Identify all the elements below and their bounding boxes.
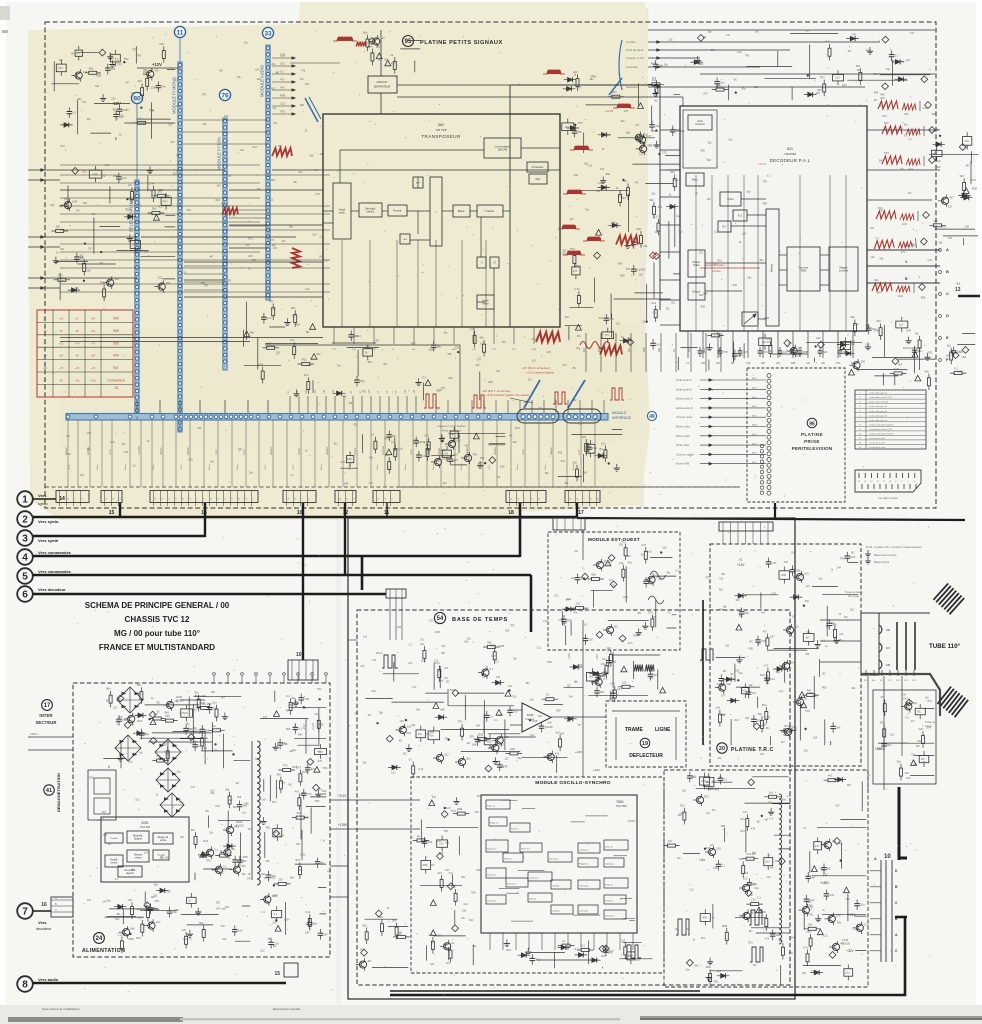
- red pulse train right of bus: [610, 388, 624, 400]
- svg-text:1n5: 1n5: [710, 844, 715, 847]
- svg-text:1n5: 1n5: [798, 346, 803, 350]
- svg-text:10u: 10u: [685, 928, 690, 931]
- svg-text:C12: C12: [105, 164, 110, 167]
- ground: [275, 743, 277, 747]
- test point: [779, 858, 786, 865]
- svg-text:33p: 33p: [517, 756, 522, 760]
- svg-text:10u: 10u: [830, 621, 835, 625]
- svg-text:0V: 0V: [59, 330, 62, 333]
- diode: [72, 288, 77, 292]
- svg-text:68n: 68n: [115, 918, 120, 921]
- resistor: [56, 230, 64, 233]
- diode: [964, 196, 969, 200]
- resistor: [194, 836, 197, 844]
- svg-text:5k6: 5k6: [439, 851, 444, 855]
- warning mark: [638, 103, 644, 109]
- under transposeur annotation texture: [337, 331, 581, 410]
- transistor Y187: [606, 626, 613, 633]
- svg-text:Masse: Masse: [321, 463, 323, 470]
- svg-text:47k: 47k: [573, 610, 578, 614]
- junction: [214, 743, 216, 745]
- blue pen stroke on pill 1: [524, 380, 540, 408]
- svg-text:-5V: -5V: [75, 330, 79, 333]
- svg-text:R08: R08: [796, 353, 801, 357]
- svg-text:12V: 12V: [823, 873, 828, 877]
- svg-text:4k7: 4k7: [655, 231, 660, 234]
- svg-text:19: 19: [642, 741, 648, 747]
- test point: [307, 758, 314, 765]
- ground: [627, 241, 629, 245]
- svg-text:47k: 47k: [144, 901, 149, 905]
- svg-text:Sortie sy: Sortie sy: [487, 805, 495, 808]
- svg-text:Commut. lente: Commut. lente: [676, 416, 693, 419]
- ground: [129, 235, 131, 239]
- test point: [962, 347, 969, 354]
- transistor: [207, 849, 214, 856]
- svg-text:18: 18: [864, 481, 866, 483]
- svg-text:SA-1: SA-1: [752, 405, 758, 408]
- svg-text:R08: R08: [547, 661, 552, 664]
- drop wire labels dense: [69, 463, 575, 470]
- test point: [818, 341, 825, 348]
- resistor: [157, 194, 165, 197]
- junction: [803, 605, 805, 607]
- svg-text:entrée vidéo 1V/75Ω: entrée vidéo 1V/75Ω: [869, 401, 888, 404]
- diode: [670, 205, 675, 209]
- trc video amplifiers component field: [715, 552, 858, 745]
- capacitor: [67, 111, 72, 113]
- svg-text:1N4: 1N4: [216, 907, 221, 910]
- svg-text:220: 220: [726, 682, 731, 686]
- svg-text:C12: C12: [531, 338, 536, 341]
- svg-text:5k6: 5k6: [257, 188, 262, 191]
- svg-text:CHASSIS TVC 12: CHASSIS TVC 12: [125, 615, 190, 624]
- transistor: [790, 347, 797, 354]
- heavy wire vertical right: [898, 787, 901, 860]
- svg-text:1n5: 1n5: [139, 751, 144, 754]
- decoder bottom bias component field: [707, 334, 862, 362]
- svg-text:33p: 33p: [360, 379, 365, 383]
- svg-text:R21: R21: [506, 948, 511, 952]
- svg-text:10u: 10u: [180, 801, 185, 804]
- svg-text:68n: 68n: [461, 876, 466, 879]
- ground: [295, 699, 297, 703]
- capacitor: [572, 130, 577, 132]
- warning mark: [150, 719, 156, 725]
- svg-text:R08: R08: [478, 733, 483, 737]
- resistor: [299, 774, 302, 782]
- svg-text:33p: 33p: [443, 331, 448, 334]
- svg-text:R08: R08: [850, 555, 855, 559]
- svg-text:Vers commandes: Vers commandes: [38, 550, 72, 555]
- svg-text:220: 220: [804, 749, 809, 752]
- svg-text:2k2: 2k2: [197, 427, 202, 430]
- svg-text:220: 220: [576, 602, 581, 606]
- svg-text:102: 102: [429, 620, 434, 623]
- upper strip crosslinks: [183, 120, 268, 226]
- line driver stage component field: [664, 790, 791, 985]
- resistor: [152, 212, 160, 215]
- svg-text:102: 102: [554, 594, 559, 597]
- svg-text:PERITELEVISION: PERITELEVISION: [792, 446, 833, 451]
- svg-text:68n: 68n: [60, 279, 65, 283]
- svg-text:1n5: 1n5: [804, 572, 809, 576]
- svg-text:220: 220: [56, 225, 61, 229]
- svg-text:1N4: 1N4: [926, 727, 931, 730]
- module strip 33 blue connector: [266, 45, 270, 300]
- thick stub under 13: [958, 295, 980, 298]
- svg-text:102: 102: [588, 638, 593, 642]
- svg-text:5k6: 5k6: [761, 362, 766, 365]
- svg-text:entrée audio droite 500mV: entrée audio droite 500mV: [869, 423, 894, 426]
- svg-text:68n: 68n: [233, 806, 238, 809]
- test point: [582, 573, 589, 580]
- svg-text:12V: 12V: [805, 29, 810, 32]
- svg-text:68n: 68n: [106, 687, 111, 691]
- test point: [784, 340, 791, 347]
- svg-text:1N4: 1N4: [607, 134, 612, 137]
- resistor: [131, 192, 134, 200]
- test point: [882, 36, 889, 43]
- svg-text:0.1: 0.1: [159, 205, 163, 209]
- svg-text:Séparateu: Séparateu: [487, 874, 496, 877]
- sawtooth pair est-ouest: [634, 665, 643, 672]
- resistor: [228, 796, 231, 804]
- svg-text:33p: 33p: [762, 724, 767, 727]
- svg-text:220: 220: [102, 811, 107, 814]
- svg-text:68n: 68n: [144, 251, 149, 254]
- transistor: [215, 866, 222, 873]
- svg-text:C47: C47: [903, 696, 908, 700]
- block 562 transposeur outline: [323, 114, 560, 327]
- svg-text:Saturation: Saturation: [626, 85, 639, 89]
- svg-text:TP2: TP2: [784, 561, 789, 564]
- svg-text:12V: 12V: [264, 877, 269, 880]
- wire 5 down to est-ouest area: [530, 575, 533, 632]
- resistor: [58, 278, 66, 281]
- svg-text:Commut. rapide: Commut. rapide: [676, 453, 694, 456]
- svg-text:68n: 68n: [437, 344, 442, 348]
- svg-text:47k: 47k: [155, 69, 160, 73]
- svg-text:47k: 47k: [444, 737, 449, 741]
- svg-text:220: 220: [278, 877, 283, 881]
- bottom-right scan line: [640, 1016, 982, 1018]
- svg-text:BC: BC: [205, 728, 209, 732]
- svg-text:47k: 47k: [839, 842, 844, 846]
- resistor: [165, 719, 173, 722]
- capacitor: [824, 893, 829, 895]
- svg-text:Volume: Volume: [299, 447, 301, 455]
- svg-text:220: 220: [113, 174, 118, 178]
- svg-text:BC: BC: [739, 613, 743, 617]
- ground: [644, 622, 646, 626]
- svg-text:C12: C12: [372, 659, 377, 662]
- svg-text:decodeur: decodeur: [36, 927, 52, 931]
- bdt annotation texture: [363, 620, 575, 770]
- svg-text:4k7: 4k7: [380, 36, 385, 40]
- svg-text:C47: C47: [444, 667, 449, 670]
- svg-text:102: 102: [87, 270, 92, 273]
- test point: [829, 952, 836, 959]
- resistor: [267, 346, 275, 349]
- capacitor: [355, 379, 360, 381]
- svg-text:R21: R21: [612, 90, 617, 94]
- svg-text:Entrée audio G: Entrée audio G: [676, 398, 693, 401]
- resistor: [823, 84, 826, 92]
- sub-block: [700, 777, 710, 785]
- svg-text:R21: R21: [354, 423, 359, 426]
- svg-text:+6V: +6V: [91, 330, 96, 333]
- svg-text:5k6: 5k6: [505, 630, 510, 633]
- svg-text:+H: +H: [386, 391, 389, 394]
- svg-text:220: 220: [222, 938, 227, 941]
- svg-text:sortie audio gauche: sortie audio gauche: [869, 410, 888, 413]
- svg-text:BC: BC: [202, 701, 206, 705]
- sub-block: [161, 197, 171, 205]
- black pulse waveform bottom 2: [676, 919, 689, 935]
- sub-block: [272, 911, 282, 918]
- svg-text:102: 102: [622, 680, 627, 684]
- wire 5 horizontal: [33, 574, 531, 577]
- sub-block: [764, 858, 773, 866]
- svg-text:+6V: +6V: [43, 367, 48, 370]
- svg-text:+12V: +12V: [90, 380, 96, 383]
- svg-text:220: 220: [528, 379, 533, 382]
- svg-text:+12V: +12V: [489, 464, 491, 470]
- resistor: [162, 51, 165, 59]
- black pulse pair right 2: [750, 947, 763, 962]
- svg-text:Porte S-V: Porte S-V: [521, 848, 530, 851]
- svg-text:220: 220: [111, 97, 116, 101]
- capacitor: [765, 677, 770, 679]
- sub-block: [742, 688, 750, 694]
- svg-text:Tresse de masse: Tresse de masse: [845, 591, 863, 594]
- svg-text:PLATINE T.R.C: PLATINE T.R.C: [731, 747, 774, 753]
- decoder interior annotation texture: [695, 138, 771, 320]
- ground: [286, 319, 288, 323]
- svg-text:2k2: 2k2: [138, 79, 143, 83]
- svg-text:15: 15: [274, 971, 280, 977]
- svg-text:B: B: [55, 902, 57, 906]
- resistor: [559, 739, 562, 747]
- svg-text:MODULE: MODULE: [612, 411, 627, 415]
- svg-text:R21: R21: [619, 543, 624, 546]
- svg-text:R21: R21: [477, 795, 482, 798]
- capacitor: [117, 108, 122, 110]
- svg-text:3: 3: [22, 534, 28, 545]
- svg-text:TP2: TP2: [576, 348, 581, 351]
- capacitor: [305, 767, 310, 769]
- svg-text:TP2: TP2: [723, 350, 728, 354]
- svg-text:1N4: 1N4: [790, 661, 795, 665]
- svg-text:2k2: 2k2: [183, 938, 188, 941]
- svg-text:E: E: [946, 335, 949, 340]
- tube gun KB: [879, 660, 882, 669]
- edge circled 1: [17, 491, 33, 507]
- svg-text:1n5: 1n5: [639, 274, 644, 277]
- transistor: [128, 715, 135, 722]
- svg-text:R21: R21: [704, 795, 709, 799]
- svg-text:0.1: 0.1: [581, 944, 585, 948]
- transposeur sub-block adder: [430, 177, 442, 246]
- svg-text:5k6: 5k6: [960, 174, 965, 178]
- svg-text:47k: 47k: [658, 205, 663, 209]
- transistor: [640, 145, 647, 152]
- diode: [227, 844, 232, 848]
- svg-text:BC: BC: [509, 435, 513, 438]
- svg-text:102: 102: [469, 919, 474, 922]
- svg-text:1n5: 1n5: [815, 845, 820, 848]
- bus pill connector group 2: [563, 409, 601, 423]
- svg-text:33p: 33p: [122, 443, 127, 446]
- svg-text:16: 16: [41, 902, 47, 908]
- svg-text:102: 102: [430, 963, 435, 966]
- svg-text:1n5: 1n5: [547, 351, 552, 354]
- top right long rails: [648, 29, 935, 31]
- svg-text:Sortie vidéo: Sortie vidéo: [676, 444, 690, 447]
- svg-text:33p: 33p: [283, 742, 288, 746]
- decoder sub-block porte: [720, 192, 741, 206]
- svg-text:16: 16: [870, 481, 872, 483]
- junction: [441, 440, 443, 442]
- test point: [452, 925, 459, 932]
- alim low rails component field: [105, 888, 250, 953]
- junction: [481, 674, 483, 676]
- svg-text:TP2: TP2: [789, 952, 794, 955]
- capacitor: [562, 618, 567, 620]
- peritelevision circled 95: [807, 418, 817, 428]
- svg-text:TP2: TP2: [58, 273, 63, 277]
- junction: [140, 107, 142, 109]
- warning mark: [275, 926, 281, 932]
- resistor: [140, 692, 143, 700]
- svg-text:68n: 68n: [278, 145, 283, 148]
- svg-text:5k6: 5k6: [712, 780, 717, 784]
- top-left scan mark: [0, 6, 10, 20]
- svg-text:68n: 68n: [462, 909, 467, 912]
- resistor: [879, 328, 882, 336]
- svg-text:220: 220: [816, 336, 821, 340]
- svg-text:BU326: BU326: [236, 824, 244, 828]
- svg-text:5k6: 5k6: [807, 689, 812, 693]
- svg-text:R08: R08: [487, 741, 492, 744]
- svg-text:12V: 12V: [128, 183, 133, 187]
- svg-text:sortie audio gauche: sortie audio gauche: [869, 392, 888, 395]
- resistor: [673, 179, 676, 187]
- svg-text:4k7: 4k7: [828, 774, 833, 778]
- capacitor: [349, 334, 354, 336]
- svg-text:R21: R21: [873, 73, 878, 76]
- svg-text:1N4: 1N4: [320, 153, 325, 156]
- tube hv feed lines: [867, 676, 869, 790]
- svg-text:0.1: 0.1: [409, 757, 413, 761]
- svg-text:+6V: +6V: [59, 355, 64, 358]
- svg-text:masse de la prise: masse de la prise: [869, 437, 886, 440]
- test point: [603, 945, 610, 952]
- diode: [601, 185, 606, 189]
- transistor: [233, 866, 240, 873]
- capacitor: [604, 949, 609, 951]
- svg-text:0.1: 0.1: [757, 896, 761, 900]
- wire 7 to alim connector: [33, 910, 51, 912]
- svg-text:R08: R08: [721, 825, 726, 828]
- svg-text:1N4: 1N4: [215, 805, 220, 808]
- warning mark: [496, 710, 502, 716]
- svg-text:TP2: TP2: [880, 210, 885, 213]
- sub-block: [346, 456, 353, 463]
- svg-text:KB: KB: [886, 663, 890, 667]
- left edge input wires: [28, 169, 60, 171]
- svg-text:1n5: 1n5: [647, 550, 652, 554]
- svg-text:R08: R08: [706, 965, 711, 969]
- svg-text:10u: 10u: [775, 859, 780, 863]
- second bottom wire: [390, 990, 700, 992]
- svg-text:R08: R08: [280, 94, 285, 98]
- svg-text:Format.: Format.: [393, 208, 402, 212]
- svg-text:BC: BC: [321, 861, 325, 865]
- svg-text:EB-4: EB-4: [752, 415, 758, 417]
- voltage table grid: [37, 310, 133, 397]
- resistor: [651, 619, 654, 627]
- svg-text:10u: 10u: [818, 577, 823, 580]
- svg-text:68n: 68n: [250, 330, 255, 334]
- svg-text:102: 102: [742, 690, 747, 693]
- test diamond top centre: [369, 38, 376, 45]
- svg-text:4k7: 4k7: [221, 202, 226, 205]
- capacitor: [387, 434, 392, 436]
- resistor: [120, 941, 123, 949]
- svg-text:BC: BC: [191, 828, 195, 832]
- svg-text:102: 102: [621, 938, 626, 942]
- svg-text:erreur: erreur: [111, 861, 118, 865]
- svg-text:102: 102: [444, 453, 449, 456]
- est-ouest annotation texture: [554, 543, 679, 626]
- svg-text:-a-r: -a-r: [403, 237, 407, 241]
- capacitor: [156, 85, 161, 87]
- svg-text:BC: BC: [734, 79, 738, 82]
- svg-text:906: 906: [113, 329, 119, 333]
- resistor: [769, 795, 777, 798]
- svg-text:0.1: 0.1: [591, 681, 595, 685]
- svg-text:2k2: 2k2: [706, 781, 711, 784]
- svg-text:sortie audio gauche: sortie audio gauche: [869, 405, 888, 408]
- diode: [731, 698, 736, 702]
- svg-text:+12V: +12V: [567, 653, 571, 660]
- wire 4 up to connector 18: [519, 503, 522, 557]
- svg-text:C12: C12: [434, 659, 439, 662]
- svg-text:0.1: 0.1: [575, 947, 579, 951]
- capacitor: [75, 256, 80, 258]
- resistor: [809, 938, 812, 946]
- transposeur sub-block a+r: [413, 177, 423, 188]
- resistor: [900, 768, 903, 776]
- red waveform sketch group 1: [878, 96, 931, 116]
- resistor: [478, 738, 486, 741]
- svg-text:2005: 2005: [176, 695, 183, 699]
- svg-text:1N4: 1N4: [904, 772, 909, 775]
- svg-text:TP2: TP2: [280, 110, 285, 114]
- svg-text:R21: R21: [760, 673, 765, 677]
- svg-text:R21: R21: [741, 818, 746, 821]
- capacitor: [804, 898, 809, 900]
- svg-text:102: 102: [906, 59, 911, 62]
- svg-text:TP2: TP2: [304, 697, 309, 701]
- svg-text:KV: KV: [886, 646, 890, 650]
- capacitor: [431, 344, 436, 346]
- resistor: [261, 371, 264, 379]
- svg-text:R21: R21: [641, 267, 646, 271]
- svg-text:76: 76: [221, 92, 229, 99]
